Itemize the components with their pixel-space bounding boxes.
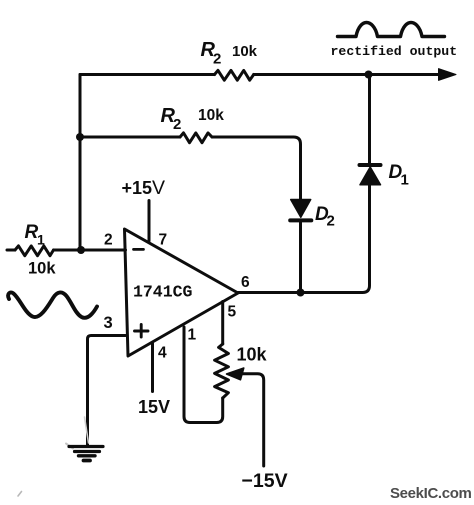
op-amp inverting input minus sign: [134, 248, 144, 251]
resistor R2 (top, in series to output): [215, 70, 254, 80]
wire: pin 5 to potentiometer top: [221, 302, 224, 345]
arrowhead: rectified output arrow: [439, 69, 457, 81]
wire: pin 1 to potentiometer bottom (offset null loop): [184, 327, 223, 423]
op-amp U1 1741CG triangle: [125, 229, 239, 356]
svg-text:6: 6: [241, 274, 250, 291]
svg-text:10k: 10k: [232, 43, 258, 60]
svg-text:1: 1: [37, 232, 45, 248]
wire: top output rail right segment: [254, 73, 441, 76]
svg-text:1: 1: [401, 172, 409, 189]
svg-text:2: 2: [104, 232, 113, 249]
wiper arrow of potentiometer: [227, 368, 244, 380]
wire: top output rail left segment: [80, 73, 215, 76]
svg-text:10k: 10k: [28, 260, 56, 278]
node: junction output wire / D2: [297, 289, 305, 297]
svg-text:15V: 15V: [138, 397, 170, 417]
resistor R1: [15, 246, 54, 256]
svg-text:7: 7: [159, 232, 168, 249]
svg-text:1741CG: 1741CG: [133, 283, 193, 302]
potentiometer 10k (vertical zigzag): [215, 344, 229, 398]
svg-text:SeekIC.com: SeekIC.com: [390, 485, 472, 502]
wire: D1 upper segment to top rail: [368, 75, 371, 166]
waveform: input sine: [8, 292, 97, 317]
svg-text:2: 2: [327, 213, 335, 230]
wire: D2 lower segment to output node: [299, 220, 302, 292]
stray scan mark bottom-left: [18, 492, 22, 497]
stray scan streak near ground wire: [85, 417, 89, 443]
node: junction feedback / inverting input: [77, 246, 85, 254]
svg-text:10k: 10k: [237, 345, 268, 365]
diode D1 (cathode up): [360, 167, 381, 185]
svg-text:2: 2: [213, 51, 221, 68]
svg-text:+15: +15: [122, 178, 153, 198]
wire: second rail left segment: [80, 136, 180, 139]
wire: op-amp output horizontal with corner up to D1: [238, 185, 370, 293]
svg-text:−15V: −15V: [242, 470, 288, 492]
resistor R2 (lower feedback): [180, 133, 212, 143]
wire: input lead left of R1: [7, 249, 15, 252]
wire: pin 4 negative supply stub: [151, 344, 154, 392]
node: junction of top rail and D1 branch: [365, 71, 373, 79]
svg-text:5: 5: [228, 304, 237, 321]
svg-text:2: 2: [173, 116, 181, 133]
wire: inverting input (pin 2): [54, 249, 126, 252]
svg-text:1: 1: [188, 327, 197, 344]
node: junction feedback vertical / second rail: [76, 133, 84, 141]
diode D2 (cathode down): [291, 200, 311, 218]
svg-text:V: V: [152, 177, 165, 199]
waveform: rectified output symbol: [338, 23, 445, 37]
svg-text:rectified output: rectified output: [331, 44, 458, 59]
svg-text:4: 4: [158, 345, 167, 362]
wire: left feedback vertical: [79, 75, 82, 251]
svg-text:3: 3: [104, 314, 113, 332]
wire: second rail right segment with corner down to D2: [212, 137, 301, 200]
wire: pin 7 positive supply: [148, 201, 151, 242]
svg-text:10k: 10k: [198, 107, 224, 124]
wire: pin 3 input from ground: [88, 336, 126, 447]
op-amp non-inverting input plus sign: [135, 324, 149, 337]
ground symbol: [69, 445, 103, 448]
